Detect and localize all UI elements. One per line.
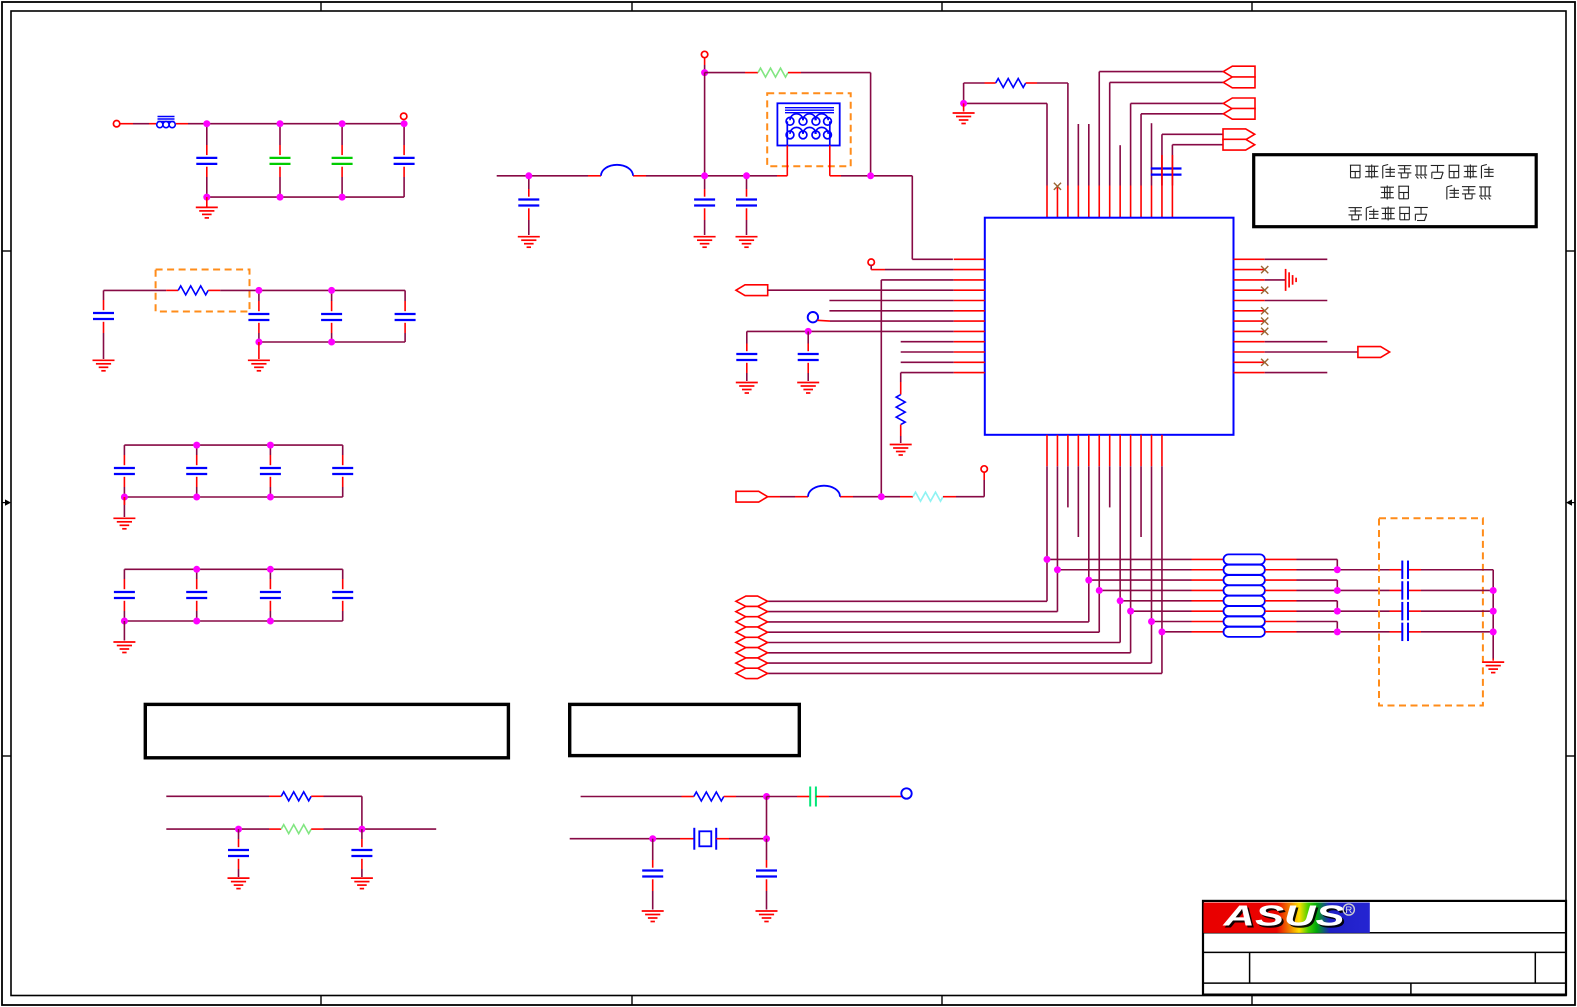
wire main rail <box>497 175 913 177</box>
wire <box>196 601 198 621</box>
no-connect X <box>1261 359 1268 366</box>
wire <box>1265 621 1337 623</box>
wire <box>881 280 953 497</box>
junction <box>401 120 408 127</box>
wire <box>963 83 965 103</box>
wire <box>1265 631 1390 633</box>
junction <box>867 172 874 179</box>
junction <box>235 826 242 833</box>
junction <box>267 442 274 449</box>
resistor <box>178 286 208 295</box>
wire to resistor pack <box>1047 558 1224 560</box>
wire <box>581 796 694 798</box>
resistor pack element <box>1224 596 1265 606</box>
wire to port <box>768 621 1089 623</box>
wire to port <box>768 600 1047 602</box>
wire <box>238 829 240 847</box>
junction <box>1096 587 1103 594</box>
wire <box>176 123 404 125</box>
wire <box>404 290 406 311</box>
wire <box>1110 81 1224 83</box>
ground <box>113 642 135 653</box>
no-connect X <box>1261 307 1268 314</box>
port arrow (left) <box>1223 108 1255 119</box>
junction <box>1158 628 1165 635</box>
junction <box>277 194 284 201</box>
junction <box>1334 628 1341 635</box>
chip right pins <box>1234 259 1265 372</box>
wire <box>829 300 953 302</box>
wire <box>652 839 654 868</box>
junction <box>277 120 284 127</box>
junction <box>1127 608 1134 615</box>
junction <box>255 339 262 346</box>
wire <box>331 323 333 342</box>
terminal circle <box>868 259 874 265</box>
port arrow (left) <box>1223 66 1255 77</box>
title block lines <box>1203 933 1566 995</box>
wire vertical <box>1056 466 1058 611</box>
wire <box>817 319 953 322</box>
wire <box>746 176 748 197</box>
port arrow (left) <box>1223 98 1255 109</box>
wire vertical <box>1161 466 1163 673</box>
wire <box>1265 351 1358 353</box>
junction <box>878 493 885 500</box>
highlight dashed box <box>156 270 250 312</box>
capacitor <box>332 158 353 164</box>
wire top <box>124 568 342 570</box>
capacitor <box>798 354 819 360</box>
wire <box>716 838 766 840</box>
junction <box>1490 608 1497 615</box>
port arrow (right) <box>1223 129 1255 140</box>
wire to resistor pack <box>1152 621 1224 623</box>
capacitor <box>196 158 217 164</box>
wire <box>1265 341 1328 343</box>
wire <box>238 859 240 877</box>
wire <box>196 569 198 589</box>
wire bottom <box>259 341 405 343</box>
resistor <box>281 825 311 834</box>
wire <box>570 838 665 840</box>
border center arrow right <box>1566 499 1575 505</box>
capacitor <box>1151 169 1182 175</box>
junction <box>121 618 128 625</box>
no-connect X <box>1261 266 1268 273</box>
wire to resistor pack <box>1120 600 1223 602</box>
resistor <box>758 68 788 77</box>
ground <box>694 237 716 248</box>
junction <box>339 120 346 127</box>
wire <box>747 330 954 332</box>
capacitor <box>228 850 249 856</box>
wire <box>269 445 271 465</box>
junction <box>328 287 335 294</box>
wire merge <box>1336 622 1338 632</box>
wire <box>279 167 281 197</box>
junction <box>267 566 274 573</box>
wire <box>528 208 530 235</box>
junction <box>1148 618 1155 625</box>
wire <box>342 445 344 465</box>
ground <box>1286 269 1297 291</box>
junction <box>805 328 812 335</box>
port arrow (left) <box>736 285 768 296</box>
common-mode choke <box>777 103 839 145</box>
svg-text:R: R <box>1345 905 1352 916</box>
capacitor <box>810 787 816 807</box>
wire <box>258 323 260 342</box>
bidirectional port <box>736 617 768 627</box>
wire <box>964 82 996 84</box>
wire <box>964 102 1047 104</box>
wire <box>1265 600 1337 602</box>
bidirectional port <box>736 658 768 668</box>
wire to port <box>768 611 1058 613</box>
no-connect X <box>1261 287 1268 294</box>
wire <box>704 176 706 197</box>
ground <box>736 383 758 394</box>
junction <box>193 566 200 573</box>
wire <box>1265 258 1328 260</box>
wire <box>816 796 902 798</box>
svg-text:ASUS: ASUS <box>1222 901 1345 933</box>
port arrow (right) <box>736 491 768 502</box>
resistor pack element <box>1224 627 1265 637</box>
junction <box>339 194 346 201</box>
wire <box>404 323 406 342</box>
wire to resistor pack <box>1089 579 1224 581</box>
wire <box>1141 113 1223 115</box>
ground <box>797 383 819 394</box>
capacitor <box>248 314 269 320</box>
junction <box>121 494 128 501</box>
no-connect X <box>1054 183 1061 190</box>
wire to port <box>768 642 1121 644</box>
wire <box>166 828 281 830</box>
wire merge <box>1336 580 1338 590</box>
highlight dashed box <box>767 93 851 166</box>
wires above chip <box>1047 72 1172 186</box>
capacitor <box>1402 602 1408 620</box>
wire <box>206 197 208 206</box>
wire merge <box>1336 559 1338 569</box>
junction <box>328 339 335 346</box>
wire bottom <box>207 196 404 198</box>
junction <box>960 100 967 107</box>
resistor <box>281 792 311 801</box>
junction <box>1085 577 1092 584</box>
junction <box>701 69 708 76</box>
wire <box>196 477 198 497</box>
port arrow (right) <box>1223 139 1255 150</box>
junction <box>525 172 532 179</box>
wire <box>766 839 768 868</box>
wire <box>807 363 809 381</box>
junction <box>1054 566 1061 573</box>
resistor pack element <box>1224 606 1265 616</box>
wire <box>943 472 984 497</box>
capacitor <box>395 314 416 320</box>
wire to resistor pack <box>1131 610 1224 612</box>
wire <box>807 331 809 351</box>
capacitor <box>518 200 539 206</box>
wire <box>704 58 706 73</box>
wire <box>1390 631 1494 633</box>
wire <box>1265 569 1390 571</box>
title block frame <box>1203 901 1566 995</box>
wire <box>1265 589 1390 591</box>
wire <box>258 342 260 359</box>
wire <box>123 621 125 641</box>
junction <box>649 835 656 842</box>
resistor <box>996 79 1026 88</box>
capacitor <box>114 592 135 598</box>
wire <box>766 797 768 839</box>
chip top pins <box>1047 186 1172 218</box>
wire <box>768 496 913 498</box>
wire <box>871 265 954 269</box>
wire vertical <box>1088 466 1090 622</box>
wire <box>206 167 208 197</box>
capacitor <box>694 200 715 206</box>
wire <box>704 73 706 176</box>
capacitor <box>260 468 281 474</box>
wire <box>788 72 871 74</box>
capacitor <box>351 850 372 856</box>
junction <box>701 172 708 179</box>
wire <box>1265 372 1328 374</box>
wire <box>724 796 767 798</box>
ground <box>736 237 758 248</box>
junction <box>358 826 365 833</box>
junction <box>1117 597 1124 604</box>
wire <box>311 796 362 829</box>
wire <box>746 331 748 351</box>
capacitor <box>1402 623 1408 641</box>
capacitor <box>332 592 353 598</box>
chip left pins <box>954 259 985 372</box>
wire <box>901 373 954 395</box>
terminal circle <box>981 466 987 472</box>
junction <box>193 442 200 449</box>
wire <box>1131 102 1224 104</box>
wire <box>269 569 271 589</box>
junction <box>1334 566 1341 573</box>
ground <box>756 911 778 922</box>
ground <box>642 911 664 922</box>
wire <box>1162 133 1223 135</box>
wire <box>768 289 954 291</box>
terminal circle <box>701 51 707 57</box>
capacitor <box>321 314 342 320</box>
chip body <box>985 218 1234 435</box>
ground <box>93 360 115 371</box>
wire <box>746 208 748 235</box>
ground <box>518 237 540 248</box>
capacitor <box>642 871 663 877</box>
wire <box>1492 659 1494 661</box>
chip bottom pins <box>1047 435 1162 466</box>
wire <box>123 445 125 465</box>
wire <box>123 497 125 505</box>
wire <box>208 289 405 291</box>
highlight dashed box <box>1379 518 1483 705</box>
terminal circle <box>401 113 407 119</box>
port arrow (left) <box>1223 77 1255 88</box>
wire <box>652 879 654 909</box>
no-connect X <box>1261 318 1268 325</box>
wire <box>829 310 953 312</box>
junction <box>203 194 210 201</box>
junction <box>193 618 200 625</box>
wire <box>342 569 344 589</box>
wire cap stubs <box>1162 155 1172 186</box>
note text line 2 <box>1381 186 1492 200</box>
wire <box>1265 558 1337 560</box>
resistor pack element <box>1224 616 1265 626</box>
wire vertical <box>1119 466 1121 642</box>
wire to port <box>768 672 1162 674</box>
wire vertical <box>1046 466 1048 601</box>
junction <box>267 618 274 625</box>
note box <box>145 704 508 757</box>
bidirectional port <box>736 606 768 616</box>
wires below chip stubs <box>1068 466 1141 537</box>
wire <box>1026 82 1068 84</box>
bidirectional port <box>736 648 768 658</box>
wire <box>103 322 105 359</box>
wire <box>870 73 872 176</box>
wire to resistor pack <box>1099 589 1223 591</box>
wire to port <box>768 652 1131 654</box>
wire vertical <box>1130 466 1132 653</box>
wire merge <box>1336 601 1338 611</box>
wire <box>120 123 156 125</box>
resistor <box>913 492 943 501</box>
wire <box>766 879 768 909</box>
capacitor <box>1402 581 1408 599</box>
wire <box>1265 610 1390 612</box>
wire <box>1172 144 1223 146</box>
wire top <box>124 444 342 446</box>
note text box <box>1254 155 1537 227</box>
wire <box>900 425 902 443</box>
wire <box>269 601 271 621</box>
junction <box>255 287 262 294</box>
junction <box>763 835 770 842</box>
wire bottom <box>124 620 342 622</box>
border center arrow left <box>2 499 11 505</box>
resistor pack element <box>1224 575 1265 585</box>
capacitor <box>332 468 353 474</box>
wire <box>528 176 530 197</box>
wire <box>123 497 125 517</box>
inductor <box>601 165 633 176</box>
wire <box>963 103 965 111</box>
ground <box>248 360 270 371</box>
capacitor <box>756 871 777 877</box>
junction <box>203 120 210 127</box>
wire <box>901 351 954 353</box>
wire <box>705 72 758 74</box>
wire choke pins <box>787 146 830 176</box>
crystal <box>694 828 716 850</box>
wire to resistor pack <box>1057 569 1223 571</box>
wire to resistor pack <box>1162 631 1224 633</box>
note text line 1 <box>1350 165 1494 179</box>
wire <box>258 290 260 311</box>
capacitor <box>394 158 415 164</box>
capacitor <box>93 313 114 319</box>
ground <box>228 878 250 889</box>
bidirectional port <box>736 627 768 637</box>
wire <box>1390 610 1494 612</box>
wire <box>403 124 405 155</box>
wire <box>403 167 405 197</box>
ferrite bead <box>157 117 176 128</box>
capacitor <box>736 200 757 206</box>
capacitor <box>186 592 207 598</box>
capacitor <box>270 158 291 164</box>
bidirectional port <box>736 637 768 647</box>
wire <box>311 828 436 830</box>
wire <box>341 167 343 197</box>
resistor pack element <box>1224 554 1265 564</box>
wire to port <box>768 662 1152 664</box>
wire vertical <box>1098 466 1100 632</box>
capacitor <box>186 468 207 474</box>
junction <box>763 793 770 800</box>
wire <box>1390 569 1494 571</box>
wire <box>767 796 811 798</box>
wire bottom <box>124 496 342 498</box>
capacitor <box>1402 561 1408 579</box>
junction <box>1334 608 1341 615</box>
wire <box>665 838 694 840</box>
wire <box>361 859 363 877</box>
capacitor <box>114 468 135 474</box>
junction <box>1490 628 1497 635</box>
wire <box>901 341 954 343</box>
bidirectional port <box>736 668 768 678</box>
ground <box>953 113 975 124</box>
wire <box>704 208 706 235</box>
wire <box>342 477 344 497</box>
wire <box>746 363 748 381</box>
wire <box>123 601 125 621</box>
wire <box>206 124 208 155</box>
port arrow (right) <box>1358 347 1390 358</box>
ground <box>1482 662 1504 673</box>
no-connect X <box>1261 328 1268 335</box>
wire right join <box>1492 570 1494 659</box>
resistor pack element <box>1224 585 1265 595</box>
inductor <box>808 486 840 497</box>
junction <box>1490 587 1497 594</box>
note text line 3 <box>1349 207 1428 221</box>
wire <box>1265 279 1286 281</box>
capacitor <box>736 354 757 360</box>
wire <box>1099 71 1223 73</box>
wire to port <box>768 631 1100 633</box>
junction <box>743 172 750 179</box>
junction <box>193 494 200 501</box>
note box <box>570 704 800 755</box>
wire <box>269 477 271 497</box>
resistor <box>694 792 724 801</box>
